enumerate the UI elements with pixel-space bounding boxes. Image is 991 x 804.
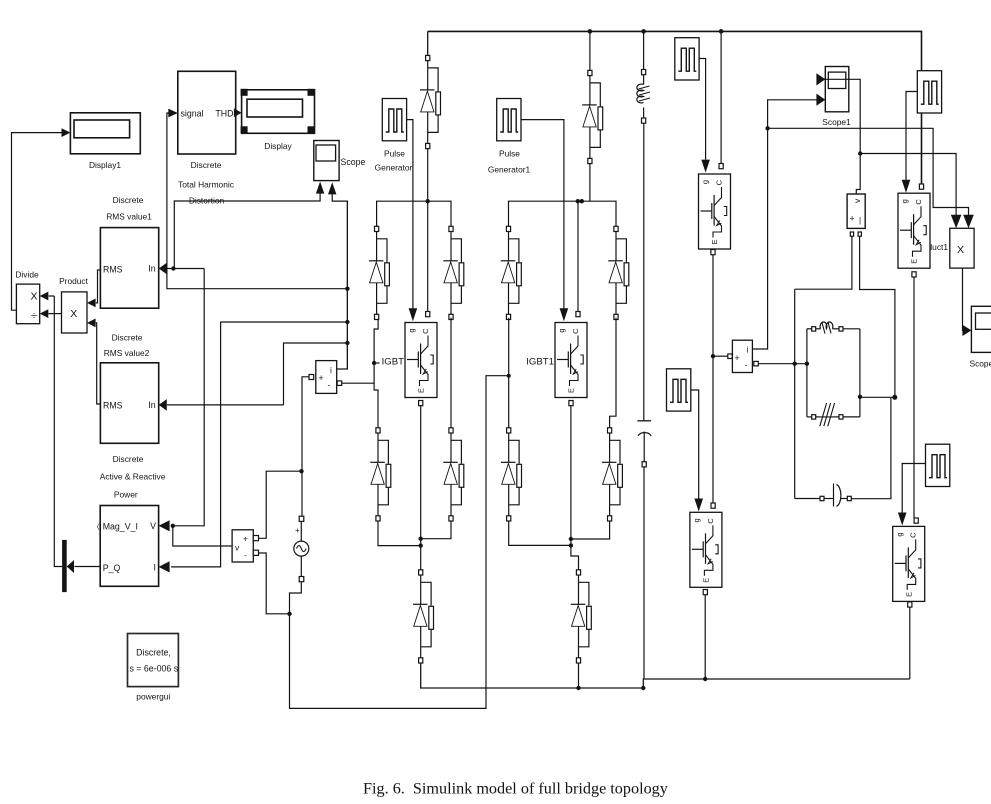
svg-text:+: + [243,534,248,544]
wire node Q down to load capacitor [850,398,891,499]
block powergui [128,634,179,702]
svg-text:I: I [154,563,156,573]
wire v1 branch to product in1 [860,154,961,229]
wire Divide div input from Product [40,309,62,318]
node dots node Q [858,395,898,400]
node dots on current signal column [345,287,349,346]
node dot bridge1 upper rail [426,199,430,203]
port square IGBT5 C [914,518,918,523]
svg-text:Discrete: Discrete [112,333,143,343]
block multiplier Product1 [950,228,974,268]
svg-text:Scope1: Scope1 [822,117,851,127]
wire AC minus down and bottom rail to bridge2 [290,376,509,709]
wire v minus to AC minus node [259,553,290,614]
svg-text:X: X [957,244,964,256]
wire C1 down to bottom rail [643,467,645,679]
svg-text:Power: Power [114,490,138,500]
AC voltage source [294,516,309,582]
svg-text:v: v [852,198,862,203]
wire top rail to IGBT2 C [719,31,723,168]
block Scope [314,141,366,181]
diode D10 bridge2 lower left [501,428,522,521]
port square IGBT4 C [919,184,923,189]
label Scope1 [822,117,851,127]
wire L1 down to capacitor C1 [643,123,645,421]
svg-text:V: V [150,521,156,531]
svg-text:Discrete: Discrete [191,160,222,170]
load network left vertical [794,289,796,498]
block Discrete Active & Reactive Power [93,454,166,586]
block Discrete RMS value2 [100,333,158,444]
svg-text:Generator: Generator [375,163,413,173]
node dot at V input [171,524,175,528]
block Display1 [70,113,140,170]
wire bridge2 lower rails [509,521,610,545]
wire top rail to diode D5 [427,31,429,55]
wire i1 minus terminal to bridge1 midpoint [337,318,379,428]
diode D8 bottom left [413,570,434,663]
svg-text:-: - [244,550,247,560]
wire v measurement output branch [173,526,232,546]
svg-text:IGBT: IGBT [382,357,405,368]
wire bridge1 lower rails [378,521,451,546]
wire i2 output up to Scope1 in2 [752,94,825,349]
wire D5 to bridge1 C node [427,149,429,312]
block Pulse Generator [375,99,413,173]
block Scope1 [825,67,849,112]
node dots load node P [793,362,810,366]
node dot voltage at RMS1 In [171,266,175,270]
block Product [59,276,89,333]
svg-text:Discrete: Discrete [113,195,144,205]
svg-text:Product: Product [59,276,89,286]
wire IGBT3 E to bottom rail [703,590,707,680]
block Current Measurement i1 [309,361,337,394]
wire voltage signal to Scope in1 [174,182,324,269]
wire v1 plus terminal down to load [795,236,852,289]
wire top rail to diode D9 [589,31,591,70]
wire D2 bottom to lower diode [450,318,452,428]
svg-text:In: In [148,264,155,274]
svg-text:X: X [70,308,77,320]
node dot leg A midpoint [711,354,715,358]
wire node Q horizontal [860,396,895,398]
load resistor branch [807,403,860,426]
diode D2 bridge1 upper right [443,226,464,319]
wire signal input [167,109,348,289]
wire bridge1 upper rail [377,201,451,226]
wire D4 bottom to lower diode with jog [610,318,616,428]
wire RMS1 In arrow [159,263,205,275]
svg-text:RMS value2: RMS value2 [104,348,150,358]
block Pulse Generator4 right [917,71,941,113]
svg-text:Display1: Display1 [89,160,121,170]
wire voltage signal to V input [159,269,205,532]
block Divide [15,270,39,324]
wire AC plus up to current measurement [302,377,311,516]
block IGBT4 output top right [898,193,930,268]
wire current branch to RMS2 In [284,343,348,405]
diode D11 bridge2 lower right [602,428,623,521]
diode D4 bridge2 upper right [608,226,629,319]
diode D6 bridge1 lower left [370,428,391,521]
wire IGBT5 E to bottom rail [908,602,912,679]
svg-text:Discrete,: Discrete, [136,648,171,658]
wire v1 minus terminal down to node Q [860,236,895,395]
wire Divide to Display1 [12,128,71,310]
svg-text:IGBT1: IGBT1 [526,357,554,368]
node dot current output branch [765,126,769,130]
svg-text:Pulse: Pulse [384,149,405,159]
load inner right vertical [859,329,861,417]
wire v plus to AC plus node [259,471,302,538]
svg-text:X: X [30,291,37,303]
block Pulse Generator5 bottom right [926,444,950,486]
wire current signal to Scope in2 [328,182,347,369]
svg-text:-: - [745,360,748,370]
node dots bridge2 upper rail [576,199,584,203]
node dot AC plus [299,469,303,473]
label IGBT1 [526,357,554,368]
wire D3 bottom to lower diode [507,318,511,428]
svg-text:-: - [328,380,331,390]
svg-text:+: + [850,214,855,224]
wire PG5 to IGBT5 gate [898,464,926,526]
svg-text:signal: signal [181,109,204,119]
node dot bridge1 left midpoint [372,361,376,365]
port square bridge2 C [576,312,580,317]
wire IGBT2 E to midpoint column [711,250,715,504]
svg-text:Discrete: Discrete [113,454,144,464]
block Discrete Total Harmonic Distortion [178,71,236,205]
svg-text:powergui: powergui [136,692,170,702]
label Product1 [914,242,948,252]
wire THD output to Display [234,108,242,117]
svg-text:+: + [735,353,740,363]
block IGBT5 output bottom right [893,526,925,601]
wire tap to IGBT1 C port [577,201,579,311]
wire i2 minus to load node P [754,361,807,366]
svg-text:P_Q: P_Q [103,563,121,573]
svg-text:s = 6e-006 s: s = 6e-006 s [129,664,178,674]
wire current branch to I column [221,321,348,323]
load series RL branch [807,322,860,334]
caption figure title [363,780,669,798]
svg-text:i: i [747,345,749,355]
node dots bottom rail [576,677,707,690]
svg-text:Generator1: Generator1 [488,165,531,175]
wire bridge2 upper rail [509,201,617,226]
block Current Measurement i2 [732,340,752,372]
filter inductor L1 [637,31,650,123]
svg-text:RMS value1: RMS value1 [106,212,152,222]
block Discrete RMS value1 [100,195,158,308]
svg-text:〈: 〈 [93,523,100,531]
svg-text:Total Harmonic: Total Harmonic [178,180,234,190]
node dots bridge2 emitter column [569,537,573,548]
wire PG4 to IGBT4 gate [902,92,918,193]
svg-text:+: + [295,526,300,535]
block IGBT1 [555,323,587,398]
block Scope2 [970,306,991,368]
node dot v1 output branch [858,151,862,155]
svg-text:Active & Reactive: Active & Reactive [100,472,166,482]
svg-text:Scope2: Scope2 [970,359,991,369]
load inner left vertical [806,329,808,417]
block IGBT2 output top left [699,174,731,249]
diode D3 bridge2 upper left [501,226,522,319]
node dot AC minus [287,612,291,616]
IGBT emitter port and column [419,401,423,570]
wire current signal to I input [159,322,221,573]
top DC rail [428,31,922,184]
diode D5 top left [420,55,441,148]
node dots bridge1 emitter column [419,537,423,548]
block IGBT [405,323,437,398]
bottom rail left [421,663,910,688]
svg-text:Fig. 6. Simulink model of ful: Fig. 6. Simulink model of full bridge to… [363,780,669,798]
wire IGBT4 E down to IGBT5 C [912,272,916,518]
block Pulse Generator2 top [675,38,699,80]
block Voltage Measurement v [232,530,258,562]
wire PG3 to IGBT3 gate [691,390,703,512]
svg-text:Mag_V_I: Mag_V_I [103,522,138,532]
svg-text:|: | [859,216,861,225]
wire RMS2 In arrow [159,399,284,411]
wire D12 to bottom rail [578,663,580,688]
wire Divide x input [40,292,55,301]
node dots on top rail [588,29,724,34]
diode D7 bridge1 lower right [443,428,464,521]
wire voltage measurement v1 output to Scope1 in1 [816,73,860,194]
svg-text:RMS: RMS [103,401,123,411]
svg-text:Display: Display [264,141,292,151]
svg-text:RMS: RMS [103,265,123,275]
port square bridge1 C [426,312,430,317]
wire RMS1 out to Product in1 [87,270,100,307]
wire RMS2 out to Product in2 [87,319,100,405]
wire PG2 to IGBT2 gate [699,59,710,173]
block Voltage Measurement v1 rotated [847,194,865,236]
diode D9 top right [582,70,603,163]
svg-text:Scope: Scope [341,157,366,167]
block Pulse Generator1 [488,99,531,175]
svg-text:÷: ÷ [31,310,37,322]
wire Pulse Generator to IGBT gate [407,120,418,322]
block IGBT3 output bottom left [690,512,722,587]
wire D9 to bridge2 upper rail [589,164,591,202]
IGBT1 emitter port and column [569,401,579,570]
wire bus bar to Divide x [54,296,62,567]
load capacitor branch [795,484,852,507]
diode D1 bridge1 upper left [369,226,390,319]
block Display (selected) [241,89,315,151]
wire Pulse Generator1 to IGBT1 gate [521,120,568,322]
svg-text:i: i [330,365,332,375]
wire current signal long branch to product [768,128,974,228]
svg-text:Divide: Divide [15,270,39,280]
diode D12 bottom right [571,570,592,663]
svg-text:In: In [148,400,155,410]
svg-text:Pulse: Pulse [499,149,520,159]
wire midpoint down to IGBT3 C [711,503,715,508]
wire i1 output up [337,201,348,369]
wire P_Q output to bus bar [67,560,101,573]
block Pulse Generator3 [667,369,691,411]
label IGBT [382,357,405,368]
bus bar terminator [62,540,67,592]
filter capacitor C1 [637,421,651,467]
wire midpoint to i2 input [713,354,732,359]
svg-text:THD: THD [215,109,233,119]
svg-text:+: + [319,373,324,383]
wire Product1 to Scope2 [962,268,971,336]
